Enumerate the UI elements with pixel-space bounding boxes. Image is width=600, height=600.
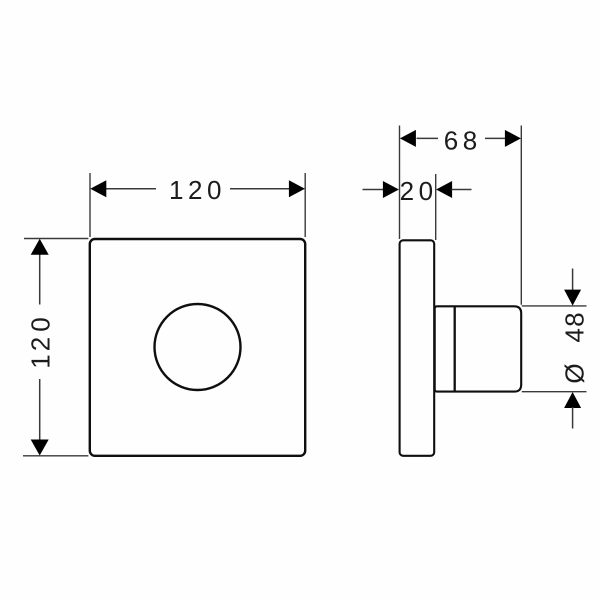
dim 68 line right segment bbox=[485, 137, 505, 139]
svg-text:1: 1 bbox=[26, 354, 56, 368]
svg-text:8: 8 bbox=[560, 312, 590, 326]
knob body (side view) bbox=[435, 306, 522, 391]
svg-text:68: 68 bbox=[444, 125, 482, 155]
side plate outline (side view, 20 deep) bbox=[400, 240, 435, 455]
extension line right of 68 dim bbox=[520, 126, 522, 305]
svg-text:120: 120 bbox=[169, 175, 226, 205]
extension line top of left 120 dim bbox=[24, 238, 88, 240]
svg-text:Ø: Ø bbox=[560, 363, 590, 383]
arrowhead left of 120 horizontal bbox=[90, 180, 106, 197]
arrowhead bottom of 120 vertical bbox=[31, 440, 49, 456]
front plate outline (120 x 120 escutcheon, front view) bbox=[90, 239, 305, 456]
extension line bottom of left 120 dim bbox=[23, 455, 88, 457]
svg-text:4: 4 bbox=[560, 328, 590, 342]
arrowhead left of 20 (pointing right) bbox=[383, 181, 399, 198]
dim 68 line left segment bbox=[417, 137, 439, 139]
arrowhead top of Ø48 (pointing down) bbox=[564, 290, 581, 306]
dim 20 right tail bbox=[452, 189, 472, 191]
extension line right of top 120 dim bbox=[304, 173, 306, 237]
dim 120 vertical line upper segment bbox=[39, 254, 41, 305]
extension line right of 20 dim bbox=[435, 174, 437, 240]
label Ø48 (rotated) bbox=[560, 312, 590, 383]
extension line top of Ø48 dim bbox=[522, 305, 587, 307]
knob step line bbox=[454, 307, 456, 391]
dim Ø48 lower tail bbox=[572, 407, 574, 429]
knob circle (front view, Ø48) bbox=[155, 304, 241, 390]
arrowhead right of 68 bbox=[505, 130, 521, 147]
arrowhead bottom of Ø48 (pointing up) bbox=[564, 392, 581, 408]
svg-text:2: 2 bbox=[26, 337, 56, 351]
dim 120 horizontal line right segment bbox=[230, 188, 290, 190]
dim 20 left tail bbox=[363, 189, 385, 191]
dim 120 vertical line lower segment bbox=[39, 379, 41, 441]
arrowhead left of 68 bbox=[400, 130, 416, 147]
extension line left of 68 dim bbox=[399, 126, 401, 240]
dim 120 horizontal line left segment bbox=[106, 188, 157, 190]
svg-text:0: 0 bbox=[26, 317, 56, 331]
svg-text:20: 20 bbox=[400, 176, 438, 206]
arrowhead right of 20 (pointing left) bbox=[436, 181, 452, 198]
arrowhead right of 120 horizontal bbox=[289, 180, 305, 197]
label 120 vertical (rotated) bbox=[26, 317, 56, 368]
extension line left of top 120 dim bbox=[89, 173, 91, 237]
dim Ø48 upper tail bbox=[572, 269, 574, 292]
extension line bottom of Ø48 dim bbox=[522, 391, 587, 393]
arrowhead top of 120 vertical bbox=[31, 239, 49, 255]
